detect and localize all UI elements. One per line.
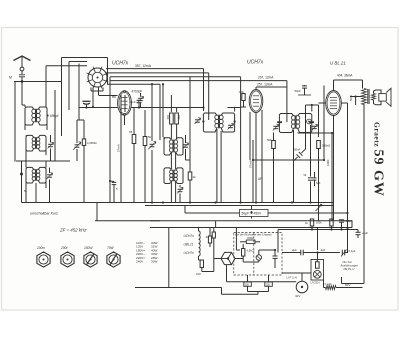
svg-text:240V: 240V xyxy=(136,260,144,264)
svg-text:+8μF: +8μF xyxy=(362,231,369,235)
svg-text:U BL 21: U BL 21 xyxy=(330,61,346,66)
svg-text:UCH7x: UCH7x xyxy=(112,61,129,67)
svg-text:100m: 100m xyxy=(37,246,45,250)
svg-text:100k: 100k xyxy=(316,221,322,225)
svg-text:30W: 30W xyxy=(151,260,157,264)
svg-text:50pF: 50pF xyxy=(295,89,302,93)
svg-text:150W: 150W xyxy=(84,246,93,250)
svg-text:UCH7x: UCH7x xyxy=(184,234,195,238)
svg-text:Auf der Rückseite des Chassis: Auf der Rückseite des Chassis xyxy=(234,233,272,237)
svg-text:0,1μF: 0,1μF xyxy=(325,282,332,286)
svg-text:200ℓ: 200ℓ xyxy=(60,246,68,250)
svg-text:42V: 42V xyxy=(295,294,300,298)
svg-text:4,5kΩ: 4,5kΩ xyxy=(247,249,254,253)
svg-text:404, 36mA: 404, 36mA xyxy=(337,74,353,78)
svg-text:50k: 50k xyxy=(267,138,272,142)
svg-text:4700pF: 4700pF xyxy=(132,90,143,94)
svg-text:70W: 70W xyxy=(107,246,115,250)
svg-text:50μF: 50μF xyxy=(242,211,250,215)
svg-text:267, 12mA: 267, 12mA xyxy=(258,76,274,80)
svg-text:357, 12mA: 357, 12mA xyxy=(135,64,152,68)
svg-text:69Kpf: 69Kpf xyxy=(50,114,58,118)
svg-text:100: 100 xyxy=(266,283,271,286)
svg-text:300: 300 xyxy=(166,114,170,119)
svg-text:100: 100 xyxy=(245,283,250,286)
svg-text:UY21N: UY21N xyxy=(311,280,320,284)
svg-text:UBL21: UBL21 xyxy=(184,243,194,247)
svg-text:57mA: 57mA xyxy=(249,160,253,168)
svg-text:450Ω: 450Ω xyxy=(247,236,253,240)
svg-text:10k: 10k xyxy=(239,90,244,94)
svg-text:57mA: 57mA xyxy=(117,144,121,152)
svg-text:500kΩ: 500kΩ xyxy=(322,144,330,148)
svg-text:450V: 450V xyxy=(254,211,263,215)
svg-text:0,05MΩ: 0,05MΩ xyxy=(87,141,96,145)
svg-text:5k: 5k xyxy=(148,135,152,139)
svg-text:ZF = 452 kHz: ZF = 452 kHz xyxy=(59,228,87,233)
svg-text:M: M xyxy=(9,76,12,80)
svg-text:umschaltbar Kurz: umschaltbar Kurz xyxy=(30,212,58,216)
svg-text:1MΩ: 1MΩ xyxy=(326,159,330,166)
svg-text:257, 12mA: 257, 12mA xyxy=(257,83,273,87)
svg-text:U F 1 N: U F 1 N xyxy=(287,276,297,280)
svg-text:1k: 1k xyxy=(193,175,197,179)
svg-text:5000: 5000 xyxy=(349,94,353,101)
svg-text:UCH7x: UCH7x xyxy=(247,60,264,66)
svg-text:UCH7x: UCH7x xyxy=(184,251,195,255)
svg-text:43nF: 43nF xyxy=(129,100,136,104)
svg-text:100: 100 xyxy=(196,272,201,276)
svg-text:4μF: 4μF xyxy=(321,248,326,252)
svg-text:50nF: 50nF xyxy=(294,148,301,152)
svg-text:65: 65 xyxy=(129,130,133,134)
svg-text:100: 100 xyxy=(177,114,181,119)
svg-text:8W: 8W xyxy=(112,95,116,99)
svg-text:PE,PL,U: PE,PL,U xyxy=(344,267,356,271)
svg-text:2μF: 2μF xyxy=(292,248,297,252)
svg-text:0,1μF: 0,1μF xyxy=(349,249,356,253)
